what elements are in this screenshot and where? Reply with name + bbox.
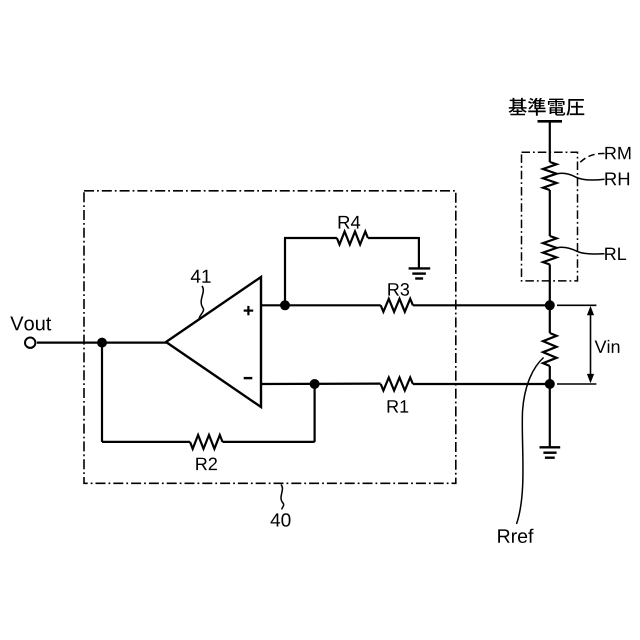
label 40 bbox=[271, 513, 291, 526]
resistor Rref bbox=[543, 333, 557, 366]
wire: R4 down to ground bbox=[418, 237, 420, 268]
wire: R4 left segment bbox=[284, 237, 337, 239]
label R2 bbox=[196, 458, 217, 471]
wire: R4 right segment bbox=[368, 237, 419, 239]
op-amp 41 triangle bbox=[166, 277, 261, 407]
wire: node B up to R4 bbox=[284, 238, 286, 305]
wire: node D to Rref bbox=[549, 305, 551, 333]
wire: node A down to R2 bbox=[101, 343, 103, 442]
label RL bbox=[605, 248, 626, 260]
wire: op-amp + input line to node D (through R3) bbox=[261, 304, 381, 306]
label R4 bbox=[339, 216, 361, 229]
label Vin bbox=[595, 340, 620, 353]
tick line at node E (Vin bottom) bbox=[557, 383, 596, 385]
resistor RL bbox=[543, 236, 557, 265]
node A junction bbox=[97, 338, 107, 348]
wire: RL to node D bbox=[549, 265, 551, 306]
net label: 基準電圧 (reference voltage) bbox=[509, 98, 585, 116]
wire: RH to RL bbox=[549, 190, 551, 236]
node C junction bbox=[310, 379, 320, 389]
wire: R2 left segment bbox=[102, 441, 190, 443]
leader squiggle to box 40 bbox=[281, 485, 284, 510]
leader line to RL bbox=[555, 247, 605, 254]
wire: node E to ground bbox=[549, 384, 551, 447]
label Rref bbox=[498, 529, 533, 543]
resistor R1 bbox=[381, 378, 413, 391]
leader line from Rref label to resistor bbox=[517, 358, 544, 525]
ground symbol (R4) bbox=[409, 268, 431, 278]
label R3 bbox=[388, 283, 409, 296]
label RM bbox=[605, 147, 630, 159]
wire: op-amp − input line to node E (through R1) bbox=[261, 383, 381, 386]
combined resistor RM dashed box bbox=[522, 152, 578, 281]
tick line at node D (Vin top) bbox=[557, 304, 596, 306]
wire: Vout terminal to node A to op-amp output bbox=[37, 342, 167, 344]
label Vout bbox=[10, 317, 51, 331]
ground symbol (below Rref) bbox=[540, 447, 561, 457]
op-amp − input marker bbox=[244, 377, 253, 379]
label RH bbox=[605, 172, 629, 185]
wire: rail to RH bbox=[549, 121, 551, 162]
terminal Vout (open circle) bbox=[25, 338, 35, 348]
op-amp + input marker bbox=[244, 306, 254, 315]
leader line to RM box (dashed) bbox=[578, 153, 605, 164]
label R1 bbox=[388, 400, 409, 412]
wire: node C down to R2 bbox=[314, 384, 316, 442]
resistor RH bbox=[543, 162, 557, 190]
leader line to RH bbox=[555, 173, 605, 180]
Vin dimension arrow bbox=[587, 306, 594, 383]
power rail bar (reference voltage) bbox=[538, 120, 563, 123]
label 41 bbox=[191, 270, 211, 283]
resistor R3 bbox=[381, 299, 413, 312]
wire: R2 right segment bbox=[223, 441, 315, 443]
node D junction bbox=[545, 300, 555, 310]
resistor R4 bbox=[337, 232, 368, 245]
wire: Rref to node E bbox=[549, 366, 551, 384]
leader squiggle to op-amp bbox=[199, 286, 203, 318]
node E junction bbox=[545, 379, 555, 389]
resistor R2 bbox=[190, 435, 223, 449]
node B junction bbox=[280, 300, 290, 310]
dashed box 40 (amplifier block) bbox=[84, 191, 456, 484]
